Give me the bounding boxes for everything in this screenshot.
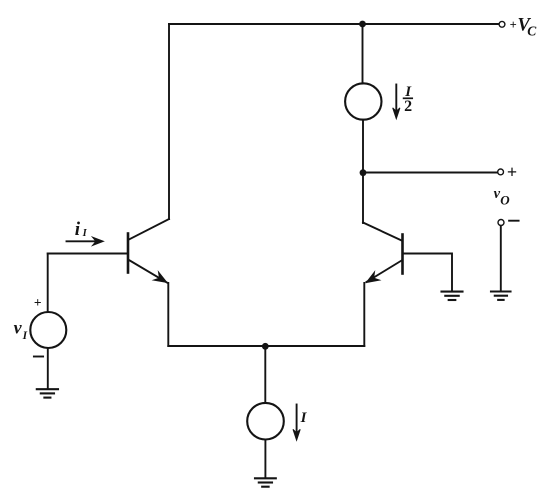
voltage source vI circle bbox=[30, 312, 66, 348]
current source I circle bbox=[247, 403, 284, 440]
Q1 emitter diagonal bbox=[129, 260, 167, 283]
transistor Q1 (left npn) bbox=[128, 219, 169, 283]
svg-text:v: v bbox=[14, 318, 23, 338]
wire Q1 base bbox=[48, 253, 127, 255]
Q2 emitter diagonal bbox=[367, 261, 402, 282]
arrow iI (right) bbox=[67, 240, 100, 242]
Q2 emitter arrowhead bbox=[366, 272, 379, 283]
Q2 collector vertical to output node bbox=[362, 173, 364, 224]
wire output node to + terminal bbox=[363, 172, 498, 174]
current source I/2 circle bbox=[345, 83, 381, 119]
ground (Q2 base) bbox=[442, 292, 463, 300]
node tail junction dot bbox=[262, 343, 269, 350]
Q2 collector diagonal bbox=[363, 223, 402, 241]
arrow I direction (down) bbox=[293, 405, 300, 441]
svg-text:I: I bbox=[82, 228, 88, 239]
label vI bbox=[14, 318, 28, 342]
ground (vI) bbox=[37, 389, 58, 397]
wire left vertical (Q1 collector to rail) bbox=[168, 24, 170, 219]
terminal vo - open circle bbox=[498, 220, 504, 226]
label +VC bbox=[510, 16, 538, 39]
terminal vo + open circle bbox=[498, 169, 504, 175]
svg-text:i: i bbox=[75, 219, 81, 240]
label - (vI minus) bbox=[34, 356, 43, 358]
arrow I/2 direction (down) bbox=[393, 85, 400, 119]
svg-text:I: I bbox=[300, 410, 308, 426]
Q1 collector diagonal bbox=[129, 219, 169, 240]
svg-text:O: O bbox=[500, 192, 510, 207]
wire bottom rail (emitters to tail node) bbox=[168, 345, 364, 347]
wire Q2 emitter vertical bbox=[363, 283, 365, 346]
label I/2 fraction bbox=[404, 84, 413, 115]
wire Q1 emitter vertical bbox=[167, 283, 169, 346]
ground (output minus) bbox=[491, 292, 511, 300]
wire tail node to current source I bbox=[264, 346, 266, 403]
svg-text:2: 2 bbox=[404, 98, 412, 115]
svg-text:+: + bbox=[34, 295, 42, 310]
terminal +VC open circle bbox=[499, 21, 505, 27]
Q1 emitter arrowhead bbox=[154, 272, 167, 283]
Q2 base bar bbox=[401, 235, 404, 274]
wire Q2 base to ground bbox=[404, 254, 453, 291]
wire vo - terminal to ground bbox=[500, 226, 502, 291]
wire rail to I/2 source bbox=[362, 24, 364, 84]
label - (output minus) bbox=[509, 220, 518, 222]
node top junction dot bbox=[359, 21, 366, 28]
svg-text:+: + bbox=[510, 18, 517, 32]
transistor Q2 (right npn, mirrored) bbox=[363, 173, 403, 283]
svg-text:C: C bbox=[527, 23, 537, 38]
label iI with arrow bbox=[67, 219, 104, 245]
Q1 base bar bbox=[127, 234, 130, 273]
label vO bbox=[494, 186, 511, 207]
ground (tail current source) bbox=[255, 478, 276, 486]
wire I/2 source to output node bbox=[362, 120, 364, 173]
wire vI bottom to ground bbox=[47, 348, 49, 389]
svg-text:I: I bbox=[22, 330, 28, 342]
wire current source I to ground bbox=[264, 440, 266, 478]
wire vI top to Q1 base bbox=[47, 254, 49, 313]
wire top supply rail bbox=[169, 23, 499, 25]
svg-text:+: + bbox=[507, 162, 517, 182]
node output junction dot bbox=[360, 169, 367, 176]
